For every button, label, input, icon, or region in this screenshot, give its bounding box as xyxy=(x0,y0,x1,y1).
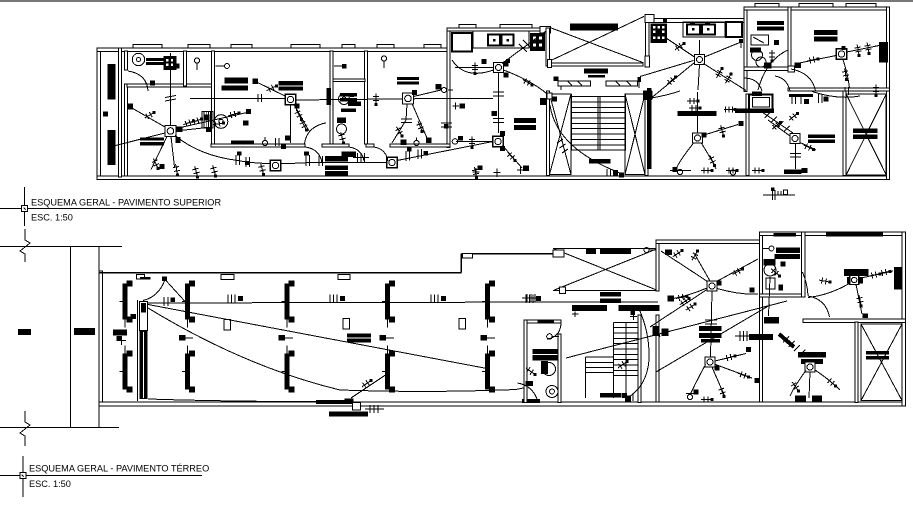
fridge kitchen xyxy=(452,33,472,52)
switch groomTR e2 xyxy=(879,269,891,276)
pillar with end caps xyxy=(282,346,295,393)
wall tick bottom left garage xyxy=(117,336,127,345)
junction top wall hall xyxy=(665,250,672,256)
wire garage diagonal a xyxy=(148,305,487,369)
wall: upper plan left exterior xyxy=(97,48,101,180)
groomBR shelf bar a xyxy=(798,352,826,357)
wire gbath2 to junction xyxy=(769,277,771,316)
long bar below void L xyxy=(572,305,607,311)
wall: rooms south a xyxy=(211,144,305,147)
dining shelf bar a xyxy=(514,118,536,123)
wire room2 light down xyxy=(290,105,292,143)
wall: step at void east xyxy=(656,240,659,291)
black bar on gbath top wall xyxy=(538,321,555,324)
junction room2 mid xyxy=(243,121,249,126)
circle tick on south wall room2 xyxy=(262,137,267,146)
hanger tick cluster on garage wire xyxy=(526,295,541,304)
switch room2 nw xyxy=(267,84,278,92)
junction blob on groom south wall xyxy=(764,317,779,324)
junction at hall1 light xyxy=(717,281,722,286)
window on right block top wall xyxy=(755,4,779,7)
title lower underline xyxy=(0,475,202,477)
groomTR shelf bar a xyxy=(844,269,869,276)
wire groomTR east xyxy=(859,271,893,279)
tick below long bar L xyxy=(572,312,579,318)
wall: gbath2 south xyxy=(759,294,805,297)
section column bottom line xyxy=(0,427,119,429)
break mark top xyxy=(20,229,30,262)
wire stair NE to mid kitchen xyxy=(652,91,680,98)
cabinet below bath b1 xyxy=(325,166,348,171)
junction on mid kitchen top wall xyxy=(663,19,667,23)
svg-text:ESQUEMA GERAL - PAVIMENTO TÉRR: ESQUEMA GERAL - PAVIMENTO TÉRREO xyxy=(29,464,209,474)
wall: left apartment divider xyxy=(447,28,450,147)
wire long diagonal across hall xyxy=(566,301,787,358)
wall: kitchen top-right corner post xyxy=(540,27,551,34)
wall: living west upper xyxy=(125,51,128,70)
outlet gbath2 xyxy=(781,262,786,267)
wire kitchen light SW curve xyxy=(452,60,494,73)
door arc room2 xyxy=(305,147,322,163)
washer circle bed1 xyxy=(132,53,144,65)
fan circle xyxy=(214,115,228,129)
wire mid kitchen to stair corner xyxy=(653,63,695,98)
standing tick pair on hall wire b xyxy=(319,156,323,166)
black wall segment left of junction xyxy=(316,400,345,404)
junction at room2 light xyxy=(295,104,300,109)
switch gstairs xyxy=(618,360,629,369)
switch bath xyxy=(339,132,346,144)
switch hall1 up xyxy=(691,249,699,260)
tick at gstairs wire top xyxy=(630,311,637,320)
outlet hall SE xyxy=(755,378,760,383)
blob groomBR bottom b xyxy=(812,396,822,403)
wire mid kitchen up xyxy=(699,40,701,55)
wall: gxroom west outer xyxy=(855,322,858,403)
switch bottom b xyxy=(173,164,180,176)
wall: bath east xyxy=(365,51,368,144)
wall: hall west lower xyxy=(656,332,659,402)
double tick on horiz wire xyxy=(258,94,262,102)
gbath basin xyxy=(546,386,558,398)
door arc on bath west wall xyxy=(305,123,327,144)
window row right arrow mark xyxy=(638,77,642,88)
junction right of pillar1 xyxy=(131,314,137,319)
blob gbath2 south xyxy=(779,285,784,291)
wire along bottom to junction xyxy=(148,399,351,402)
ceiling light below rooms xyxy=(270,160,281,171)
wall: lower plan bottom exterior xyxy=(99,402,906,406)
bath floor drain xyxy=(342,118,346,122)
switch bottom wall right block xyxy=(701,168,714,174)
window on top wall xyxy=(231,45,252,48)
black blob groomTR east xyxy=(894,267,902,290)
circle tick at divider wall room3 xyxy=(442,88,454,93)
switch room A s xyxy=(708,156,716,167)
black bar over corridor windows xyxy=(584,69,608,74)
shelf bar room2 c xyxy=(279,81,303,86)
switch NE wire b xyxy=(191,117,203,124)
ceiling light right room xyxy=(836,49,847,60)
pillar with end caps xyxy=(182,346,195,393)
switch groomBR sw xyxy=(791,382,800,393)
outlet mid wire xyxy=(350,93,354,97)
window on top wall xyxy=(377,45,394,48)
switch hall1 sw b xyxy=(686,303,697,311)
tick pair on south wall room2 xyxy=(276,138,280,146)
ceiling light living xyxy=(165,126,176,137)
balcony louver lower xyxy=(108,130,116,165)
switch bottom wall right block xyxy=(752,168,765,174)
lower void X area xyxy=(553,248,658,290)
window on top wall xyxy=(342,45,355,48)
hanger tick cluster on garage wire xyxy=(431,295,446,304)
gbath entry arc xyxy=(518,383,538,399)
switch room A e xyxy=(719,125,726,137)
wire junction to pillar4 xyxy=(351,372,390,398)
ceiling light dining xyxy=(493,136,504,147)
mid kitchen sink a xyxy=(687,22,700,35)
wall: roomA-roomB divider xyxy=(746,94,749,176)
wall: hall east / room west xyxy=(759,232,762,402)
wire mid kitchen to corridor xyxy=(704,64,747,91)
ceiling light hall 2 xyxy=(705,357,715,367)
outlet SE of dining light xyxy=(500,146,505,151)
outlet balcony xyxy=(108,144,114,150)
window on right block top wall xyxy=(799,4,833,7)
wire hall light to dining diagonal xyxy=(397,142,493,161)
outlet bed2 wall xyxy=(174,64,179,69)
switch NE wire a xyxy=(183,119,195,126)
wire groomBR se xyxy=(815,370,840,390)
window on top wall xyxy=(133,45,162,48)
cabinet below bath b2 xyxy=(325,171,348,176)
gstairs lower box xyxy=(586,357,614,398)
wire corridor right sweep xyxy=(812,92,860,98)
switch gbath2 xyxy=(771,268,781,277)
post window row a xyxy=(553,77,558,82)
post at lower void SW xyxy=(560,287,566,294)
title upper cross mark xyxy=(22,187,28,226)
wire living light to NE xyxy=(176,113,247,129)
outlet beside room3 light xyxy=(412,90,417,95)
groomBR shelf bar b xyxy=(801,359,823,364)
switch right room w xyxy=(807,57,819,64)
wall: rooms south d xyxy=(390,144,450,147)
wire garage ceiling run xyxy=(148,302,658,303)
gbath2 handle xyxy=(763,246,774,251)
junction on dining wall xyxy=(444,124,449,129)
wire living light to balcony xyxy=(112,133,166,147)
gstairs treads xyxy=(614,328,639,376)
ceiling light room3 xyxy=(403,93,414,104)
bottom tick room A xyxy=(670,169,691,174)
tick on corner wire xyxy=(519,40,531,52)
switch hall1 sw a xyxy=(680,297,691,305)
white box below junction xyxy=(353,403,361,411)
wire hall1 west short xyxy=(671,288,707,299)
bottom wall tick b xyxy=(494,169,501,178)
switch hall2 ne xyxy=(724,354,736,361)
wall: bed1 south xyxy=(127,84,214,87)
wire sweeping right of gstairs xyxy=(629,311,649,397)
shower box bath1 xyxy=(751,35,769,45)
post at void SW xyxy=(548,60,552,68)
shelf bar room2 b xyxy=(222,85,248,90)
wall lamp room3 xyxy=(381,56,386,68)
wall: stair west xyxy=(546,91,549,176)
groomTR shelf bar b xyxy=(847,277,863,283)
shaft left of stairs xyxy=(550,94,572,175)
gbath wc xyxy=(541,361,556,376)
wall tick dining west wall xyxy=(453,103,466,110)
hall shelf bar b xyxy=(699,333,722,338)
cabinet below bath a2 xyxy=(325,156,348,162)
ceiling light room2 xyxy=(285,94,296,105)
window on kitchen top wall xyxy=(500,25,532,28)
ceiling light room B xyxy=(790,134,800,144)
window on kitchen top wall xyxy=(459,25,476,28)
wall: lower top right section xyxy=(759,232,905,235)
bath label 2 xyxy=(341,109,356,113)
tick cluster left of bars xyxy=(522,294,541,302)
switch hall1 nw xyxy=(673,249,684,257)
stair NE corner post xyxy=(646,92,652,99)
pillar with end caps xyxy=(382,346,395,393)
wall: lower plan left exterior xyxy=(99,271,103,406)
wall: bath partition xyxy=(333,79,365,82)
junction at entry door xyxy=(162,277,167,281)
mid kitchen sink b xyxy=(702,22,715,35)
wall: bath1 south xyxy=(744,67,792,70)
wall: bed2 west xyxy=(212,51,215,147)
wire groomTR down xyxy=(856,285,862,315)
circle tick at hall2 SW end xyxy=(686,390,699,400)
switch bottom right of left apt xyxy=(472,167,479,179)
corridor arc xyxy=(744,78,762,91)
label NOMES room3 xyxy=(397,77,419,84)
label NOMES room B xyxy=(808,135,835,144)
switch pair on NW wire xyxy=(145,111,156,119)
blob on bath west wall xyxy=(327,88,332,105)
wc bath xyxy=(337,118,347,135)
tick pair on kitchen-dining vertical low xyxy=(493,119,504,123)
wall: lower top mid section xyxy=(461,253,553,255)
switch hall2 s xyxy=(719,386,726,398)
wall dash marker margin xyxy=(18,329,31,335)
tail mark below pillar5 xyxy=(481,335,496,341)
wardrobe bar right room b xyxy=(814,36,838,41)
standing tick pair on entry wire xyxy=(164,297,175,306)
switch mid kitchen a xyxy=(675,42,686,51)
switch on long diagonal xyxy=(656,330,668,337)
thick wall bar below closet xyxy=(735,109,774,114)
junction south wall room2 xyxy=(285,136,291,141)
gbath2 counter bar b xyxy=(775,254,801,259)
black bar on corridor wall a xyxy=(789,94,813,97)
diag tick train right block xyxy=(762,112,793,133)
bar below void a xyxy=(600,292,621,297)
wall: kitchen right exterior xyxy=(546,28,550,66)
door arc living entry xyxy=(128,71,148,91)
window on right block top wall xyxy=(846,4,876,7)
junction inside stair NW xyxy=(552,97,557,102)
bed bar room A xyxy=(678,111,717,116)
wall: hall west lower upper part xyxy=(656,315,659,332)
stair treads xyxy=(572,94,626,150)
kitchen sink b xyxy=(502,35,514,46)
junction dining west xyxy=(458,136,463,141)
tick pair below corridor wall a xyxy=(792,97,809,104)
tail mark below pillar3 xyxy=(279,335,294,341)
arc top right corridor xyxy=(791,69,816,91)
switch room A n1 xyxy=(687,98,700,104)
wire groomBR sw xyxy=(790,371,806,397)
kitchen sink a xyxy=(488,35,500,46)
void opening with cross bracing xyxy=(551,16,644,62)
black band top wall left xyxy=(773,233,796,236)
tick on hall vertical wire xyxy=(705,320,717,324)
wire room A SW xyxy=(676,143,694,170)
wire hall2 SE xyxy=(716,365,753,379)
tick pair on room B down wire xyxy=(790,154,801,158)
switch bottom wall right block xyxy=(726,168,739,174)
wire room3 light to door xyxy=(392,104,407,143)
switch right room e2 xyxy=(865,43,872,55)
door arc room3 xyxy=(374,147,388,161)
tick pair on room3 down wire xyxy=(401,119,412,123)
outlet hall east xyxy=(750,288,755,293)
window row left leader xyxy=(560,86,562,90)
pillar with end caps xyxy=(120,346,133,393)
wire hall1 up xyxy=(694,253,710,281)
wire mid kitchen NE extra xyxy=(705,42,742,57)
switch groomBR se xyxy=(827,378,837,387)
wall: right block top exterior xyxy=(744,7,890,10)
wire hall1 to stair corner xyxy=(650,290,707,328)
outlet east living xyxy=(206,127,211,132)
wall: right block left xyxy=(744,7,747,92)
wire groomBR down xyxy=(809,372,810,398)
corridor window right xyxy=(606,81,638,86)
wire mid kitchen west out xyxy=(640,61,694,77)
switch room3 sw xyxy=(395,127,403,138)
gbath shelf a xyxy=(532,349,558,354)
title upper underline xyxy=(0,208,213,210)
wire right room down xyxy=(843,60,850,89)
bottom circle symbol right block xyxy=(730,170,735,175)
junction east of stair NE post xyxy=(643,91,652,101)
wire hall1 to hall2 xyxy=(711,291,713,357)
label NOMES gxroom xyxy=(866,351,889,360)
svg-text:ESC. 1:50: ESC. 1:50 xyxy=(31,213,73,223)
outlet NE room2 xyxy=(246,109,251,114)
switch room2 se a xyxy=(295,110,303,121)
tick cluster at bottom junction xyxy=(365,405,384,413)
outlet bottom wall xyxy=(245,161,249,165)
switch room3 se xyxy=(417,121,424,133)
wall: bath1 east xyxy=(788,7,791,71)
junction at roomA light xyxy=(702,133,707,138)
kitchen counter xyxy=(473,31,529,48)
door arc bath xyxy=(349,147,364,161)
outlet kitchen b xyxy=(506,59,510,63)
window left tick marks xyxy=(568,82,582,86)
switch hall1 ne xyxy=(733,268,744,276)
wire living light to NW outlet xyxy=(131,108,165,128)
wire room A SE xyxy=(701,143,716,170)
junction at kitchen light NE xyxy=(503,62,509,67)
blob above closet xyxy=(752,92,762,97)
section column right line xyxy=(98,247,100,428)
cabinet below bath a1 xyxy=(342,152,357,157)
wire hall2 down xyxy=(712,367,725,397)
junction hall west wall a xyxy=(668,296,675,302)
wire room A to NE xyxy=(703,125,739,136)
label NOMES corridor xyxy=(588,75,605,78)
blob room3 south wall xyxy=(401,140,407,146)
switch bath1 xyxy=(769,50,775,63)
post at right room wall end xyxy=(788,66,794,72)
junction hall west wall c xyxy=(662,329,669,337)
wall: bath west xyxy=(330,51,333,144)
junction room3 NE xyxy=(436,84,442,90)
wall: gbath2 east xyxy=(802,232,805,297)
shelf bar room2 a xyxy=(224,78,248,84)
section column left line xyxy=(70,247,72,428)
vent below top wall a xyxy=(221,275,234,280)
pillar with end caps xyxy=(182,281,195,328)
feeder tick train xyxy=(783,337,805,356)
window right tick marks xyxy=(616,82,631,86)
label bath fixtures xyxy=(340,93,357,102)
label NOMES bath1 xyxy=(757,21,784,30)
wire mid kitchen to stove xyxy=(666,38,695,57)
entry gate thick bar xyxy=(138,300,148,401)
wardrobe bar right room a xyxy=(814,30,838,35)
black band top wall right xyxy=(826,233,883,237)
wire garage diagonal b xyxy=(148,308,528,391)
wire room2 light NW xyxy=(256,82,287,97)
wire dining west xyxy=(456,141,493,143)
switch hall1 west xyxy=(676,294,688,301)
junction box bottom xyxy=(345,399,354,405)
tick pair below corridor wall b xyxy=(819,94,829,103)
gbath shelf b xyxy=(532,355,558,360)
wire room A up xyxy=(696,92,698,133)
tail mark below pillar4 xyxy=(380,335,395,341)
corridor curve below bath1 xyxy=(758,50,788,90)
black bar hall SE xyxy=(749,334,773,340)
post at lower void W xyxy=(553,250,564,257)
pillar with end caps xyxy=(120,281,133,328)
wire living light to S outlet b xyxy=(171,137,175,168)
hanger tick cluster on garage wire xyxy=(228,295,243,304)
wall: stair east xyxy=(645,91,648,176)
tick cluster at stair wire end xyxy=(607,169,624,178)
switch dining west xyxy=(469,137,475,150)
closet box corridor xyxy=(749,95,773,111)
shower circle bath xyxy=(339,94,350,105)
stair NW corner post xyxy=(547,93,552,99)
switch right room s xyxy=(842,69,849,81)
outlet hall2 east xyxy=(746,347,751,352)
pillar with end caps xyxy=(482,346,495,393)
wall: lower plan right exterior xyxy=(902,232,905,406)
ceiling light groomTR xyxy=(850,276,859,285)
junction at living light NE xyxy=(177,127,183,133)
window on top wall xyxy=(188,45,210,48)
